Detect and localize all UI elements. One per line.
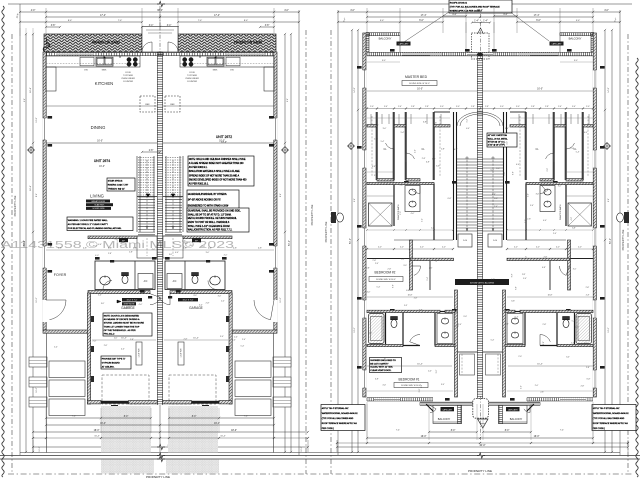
first-floor top dim extension lines (45, 8, 47, 33)
balcony top inner dims (367, 61, 400, 63)
side yard wall boxes left (29, 357, 47, 367)
garage north wall (88, 291, 150, 294)
lower dim rows first floor (46, 417, 101, 419)
svg-text:2'-8": 2'-8" (586, 367, 590, 369)
balcony dark tag bottom-left (441, 407, 455, 411)
powder sink left unit (100, 276, 110, 285)
mid dim row second floor (367, 248, 453, 250)
svg-text:4'-0": 4'-0" (428, 371, 432, 373)
second floor hall wall hatch (411, 258, 454, 260)
svg-text:REF: REF (145, 104, 150, 106)
svg-text:2'-0": 2'-0" (190, 245, 194, 247)
svg-text:WARNING: 1 HOUR FIRE RATED WAL: WARNING: 1 HOUR FIRE RATED WALL (68, 219, 109, 222)
svg-text:6'-8": 6'-8" (436, 165, 440, 167)
floor spec rotated box left (136, 342, 142, 365)
EP panel right unit (192, 238, 201, 242)
svg-text:GREAT ROOM: GREAT ROOM (91, 200, 105, 203)
stair treads second floor left (457, 159, 477, 231)
svg-text:SINK: SINK (102, 70, 107, 72)
svg-text:3'-0": 3'-0" (403, 265, 407, 267)
stair right flight treads dashed upper (165, 158, 182, 196)
garage door bar right unit (192, 401, 220, 404)
svg-text:BE CAT II SAFETY: BE CAT II SAFETY (370, 362, 389, 365)
svg-text:2'-0": 2'-0" (518, 356, 522, 358)
svg-text:7'-4": 7'-4" (560, 430, 564, 432)
partition wall note box (487, 133, 517, 147)
svg-text:THAN 1.5" LOWER THAN THE: THAN 1.5" LOWER THAN THE TOP (104, 325, 140, 328)
level marker diamond right (282, 147, 289, 154)
svg-text:42" HGT. PARTITION: 42" HGT. PARTITION (488, 134, 508, 137)
svg-text:2'-8": 2'-8" (522, 274, 526, 276)
north wall slider gap right (518, 53, 558, 55)
right side dim column inner second floor (604, 30, 606, 110)
second floor south wall left (367, 398, 433, 401)
svg-text:INSULATION MATERIALS SHALL: INSULATION MATERIALS SHALL HAVE A FLAME (189, 170, 240, 173)
svg-text:COOK: COOK (125, 72, 132, 74)
svg-text:2'-0": 2'-0" (400, 211, 402, 215)
svg-text:DW: DW (84, 70, 88, 72)
master bed size tag (402, 81, 437, 86)
leader to left balcony (404, 12, 449, 42)
second floor bath row extra ticks (367, 195, 394, 197)
closet door arcs right unit (566, 140, 574, 149)
svg-text:5'-4": 5'-4" (530, 205, 534, 207)
svg-text:5'-4": 5'-4" (54, 347, 58, 349)
svg-text:1-3/4" FLR: 1-3/4" FLR (139, 348, 141, 358)
right plan side extension lines bottom (366, 402, 368, 444)
kitchen sink left unit (96, 57, 113, 66)
svg-text:8'-0": 8'-0" (382, 60, 386, 62)
svg-text:2'-0": 2'-0" (429, 267, 433, 269)
svg-text:8'-0": 8'-0" (574, 60, 578, 62)
left exterior wall second floor (363, 33, 366, 397)
right exterior wall second floor (593, 33, 596, 397)
closet door arcs left unit (386, 140, 394, 149)
svg-text:6'-8": 6'-8" (423, 122, 427, 124)
svg-text:8'-4": 8'-4" (244, 20, 249, 22)
svg-text:8'-4": 8'-4" (36, 193, 38, 197)
closet rods left unit (371, 116, 373, 176)
pavers terrace right unit (178, 34, 276, 52)
right side dim column second floor (611, 30, 613, 452)
powder door arc right unit (208, 281, 217, 290)
balcony dark tag top-right (550, 42, 564, 46)
svg-text:3'-0": 3'-0" (505, 128, 509, 130)
side door arc right (254, 300, 274, 320)
closet walls right unit (582, 112, 584, 180)
street line full 1 (0, 455, 640, 457)
svg-text:4'-0": 4'-0" (442, 247, 446, 249)
svg-text:3'-0": 3'-0" (536, 194, 540, 196)
balcony top-right floor edge (559, 33, 561, 52)
balcony dark tag bottom-right (506, 407, 520, 411)
svg-text:BALCONY: BALCONY (569, 37, 582, 41)
master bath dim ticks row (367, 229, 453, 231)
foyer dim row (46, 249, 157, 251)
svg-text:5'-4": 5'-4" (377, 287, 381, 289)
svg-text:D-10: D-10 (493, 240, 497, 242)
svg-text:16'-4": 16'-4" (30, 87, 32, 93)
master vanity sinks left unit (405, 186, 420, 212)
balcony dark tag top-left (397, 42, 411, 46)
garage driveway dashed apron left (102, 375, 149, 404)
balcony door leaf bottom-right (524, 405, 530, 412)
driveway centerline break (159, 405, 161, 452)
svg-text:3'-0": 3'-0" (566, 357, 570, 359)
svg-text:1-3/4" FLR: 1-3/4" FLR (181, 348, 183, 358)
svg-text:5'-4": 5'-4" (404, 305, 408, 307)
svg-text:14'-8": 14'-8" (354, 87, 356, 92)
svg-text:3'-0": 3'-0" (169, 254, 173, 256)
svg-text:TREADS: 9@ 11": TREADS: 9@ 11" (108, 188, 125, 191)
svg-text:OF THE THRESHOLD . AS PER: OF THE THRESHOLD . AS PER (104, 329, 136, 332)
svg-text:4'-0": 4'-0" (98, 244, 102, 246)
svg-text:8'-0": 8'-0" (192, 416, 197, 418)
plant at pavers corner (43, 38, 50, 52)
understair wall left (137, 235, 157, 237)
svg-text:(TYP. FOR ALL BALCONIES AN: (TYP. FOR ALL BALCONIES AND (322, 417, 354, 420)
center closet boxes (460, 354, 475, 375)
svg-text:16'-4": 16'-4" (417, 364, 423, 366)
svg-text:5'-4": 5'-4" (515, 316, 519, 318)
second floor closet tick rows (367, 117, 450, 119)
svg-text:16'-4": 16'-4" (30, 185, 32, 191)
svg-text:BALCONY: BALCONY (379, 37, 392, 41)
understair closet right unit (163, 236, 183, 258)
svg-text:4'-0": 4'-0" (514, 247, 518, 249)
powder room left unit (95, 261, 155, 290)
svg-text:METAL ROUND PROFILE. RETUR: METAL ROUND PROFILE. RETURN HANDRAIL (188, 217, 238, 220)
svg-text:4'-0": 4'-0" (284, 10, 289, 12)
svg-text:2'-0": 2'-0" (234, 336, 238, 338)
svg-text:16'-0": 16'-0" (537, 89, 543, 91)
svg-text:4'-0": 4'-0" (501, 144, 505, 146)
svg-text:4'-8": 4'-8" (258, 248, 262, 250)
bottom dashed property line (8, 473, 632, 475)
svg-text:6'-0": 6'-0" (536, 20, 541, 22)
side yard equipment pads left (49, 361, 85, 378)
top boundary line (8, 3, 632, 5)
svg-text:12'-8": 12'-8" (36, 117, 38, 122)
svg-text:5'-4": 5'-4" (491, 340, 495, 342)
svg-text:PROPERTY LINE: PROPERTY LINE (310, 204, 314, 225)
svg-text:34"-38" ABOVE NOSING OR F.: 34"-38" ABOVE NOSING OR F.F. (188, 199, 222, 202)
master WC niche fixture right unit (624, 212, 629, 223)
bath2 door arc right unit (540, 335, 550, 346)
bedroom1 size tag (394, 383, 428, 388)
svg-text:2'-4": 2'-4" (398, 106, 402, 108)
master bed dim left (367, 90, 477, 92)
right property dashed (627, 34, 629, 474)
svg-text:6'-0": 6'-0" (419, 20, 424, 22)
svg-text:4'-0": 4'-0" (95, 255, 99, 257)
svg-text:AT CEILING.: AT CEILING. (102, 366, 115, 369)
svg-text:4'-0": 4'-0" (139, 304, 143, 306)
closet walls left unit (376, 112, 378, 180)
svg-text:COOK: COOK (189, 72, 196, 74)
svg-text:2'-0": 2'-0" (586, 106, 590, 108)
refrigerator left unit (140, 96, 155, 112)
stair left flight treads dashed upper (138, 158, 155, 196)
closet rods right unit (587, 116, 589, 176)
svg-text:3'-4": 3'-4" (384, 106, 388, 108)
bedroom1 dim (367, 365, 452, 367)
svg-text:6'-8": 6'-8" (426, 162, 430, 164)
side yard fence line right (273, 333, 275, 453)
svg-text:3'-0": 3'-0" (218, 296, 222, 298)
svg-text:5'-4": 5'-4" (381, 141, 385, 143)
svg-text:4'-0": 4'-0" (152, 249, 156, 251)
svg-text:4'-0": 4'-0" (575, 327, 579, 329)
stair left flight rails (136, 156, 138, 232)
window W-2 left wall lower (43, 246, 47, 268)
svg-text:PROPERTY LINE: PROPERTY LINE (13, 195, 17, 216)
property line right zigzag (636, 58, 638, 477)
svg-text:16'-4": 16'-4" (214, 423, 220, 425)
garage front wall left segment (87, 401, 101, 404)
centerline entry first floor (159, 6, 161, 56)
svg-text:2'-0": 2'-0" (93, 341, 97, 343)
svg-text:2'-8": 2'-8" (581, 385, 585, 387)
stair dim small (142, 151, 160, 153)
svg-text:9'-4": 9'-4" (287, 98, 289, 102)
svg-text:4'-0": 4'-0" (571, 217, 573, 221)
powder toilet right unit (192, 273, 199, 284)
window and door tag boxes (48, 116, 53, 119)
svg-text:2'-8": 2'-8" (586, 287, 590, 289)
level marker diamond left (28, 147, 35, 154)
svg-text:(TYP. FOR ALL BALCONIES AN: (TYP. FOR ALL BALCONIES AND (593, 417, 625, 420)
window right wall lower (273, 246, 277, 268)
svg-text:APPLY 'SH-P ETERNAL-GIL': APPLY 'SH-P ETERNAL-GIL' (593, 407, 621, 410)
balcony top-right railing (560, 33, 594, 36)
AC closet right unit (167, 274, 182, 289)
svg-text:7'-4": 7'-4" (198, 20, 203, 22)
entry porch outline (142, 27, 178, 53)
svg-text:5'-4": 5'-4" (232, 340, 236, 342)
svg-text:GUARDRAIL/HANDRAIL BY OTHERS: GUARDRAIL/HANDRAIL BY OTHERS. (188, 193, 228, 196)
svg-text:3'-0": 3'-0" (128, 306, 132, 308)
svg-text:50'-0": 50'-0" (24, 240, 26, 246)
svg-text:2'-8": 2'-8" (184, 339, 188, 341)
garage wall pilasters right (226, 316, 229, 322)
svg-text:16'-0": 16'-0" (221, 142, 227, 144)
svg-text:17'-4": 17'-4" (421, 15, 427, 17)
svg-text:A/C: A/C (144, 280, 148, 283)
svg-text:STORM. LANDING MUST BE NO: STORM. LANDING MUST BE NO MORE (104, 322, 145, 325)
bath2 vanity right unit (507, 314, 523, 344)
stair treads second floor right (483, 159, 504, 231)
bedroom2 entry door arc left (411, 266, 421, 275)
return wall left at garage (43, 330, 88, 333)
svg-text:4'-0": 4'-0" (556, 247, 560, 249)
stair landing door right (488, 234, 502, 247)
svg-text:SHALL HAVE 1-1/2" CLEARANCE: SHALL HAVE 1-1/2" CLEARANCE FROM (188, 225, 230, 228)
balcony bottom-right inner rail (499, 405, 503, 424)
svg-text:40'-0": 40'-0" (479, 444, 485, 447)
left side dim column inner (32, 34, 34, 143)
svg-text:5'-4": 5'-4" (401, 132, 405, 134)
attic access dark label (455, 279, 509, 285)
svg-text:3'-0": 3'-0" (463, 316, 467, 318)
svg-text:CLEAR VENT DOOR.: CLEAR VENT DOOR. (370, 369, 391, 372)
svg-text:4'-8": 4'-8" (108, 248, 112, 250)
garage side wall right (229, 293, 232, 404)
svg-text:FRC-311.2: FRC-311.2 (104, 334, 115, 336)
side door opening right wall (273, 300, 277, 322)
svg-text:8'-4": 8'-4" (68, 20, 73, 22)
svg-text:2'-8": 2'-8" (531, 106, 535, 108)
garage interior dim 16-4 left (92, 339, 156, 341)
svg-text:6'-8": 6'-8" (587, 379, 591, 381)
svg-text:ROOF9-CHOS.01: ROOF9-CHOS.01 (450, 3, 468, 5)
svg-text:DW: DW (230, 70, 234, 72)
svg-text:4'-8": 4'-8" (133, 248, 137, 250)
north wall shaft gap (467, 53, 493, 55)
kitchen floor boundary left unit (46, 105, 157, 107)
bath2 tub right unit (576, 314, 592, 344)
svg-text:SINK: SINK (213, 70, 218, 72)
dishwasher DW left unit (80, 57, 94, 66)
balcony top-left railing (366, 33, 400, 36)
kitchen counter side return right unit (264, 67, 274, 91)
cook top burners left unit (127, 58, 131, 62)
fire wall warning note box (67, 217, 133, 231)
svg-text:4'-0": 4'-0" (385, 357, 387, 361)
stair right flight treads solid lower (165, 197, 182, 235)
svg-text:4'-4": 4'-4" (452, 14, 457, 16)
svg-text:2'-8": 2'-8" (108, 253, 112, 255)
first-floor top dim row 2 (46, 16, 160, 18)
svg-text:5'-4": 5'-4" (505, 323, 509, 325)
garage door to foyer right (160, 294, 170, 305)
svg-text:2'-8": 2'-8" (425, 106, 429, 108)
svg-text:10'-0": 10'-0" (36, 297, 38, 302)
svg-text:16'-0": 16'-0" (534, 436, 540, 438)
svg-text:4'-0": 4'-0" (536, 247, 540, 249)
bedroom2 interior dim (367, 296, 453, 298)
master bed dim right (483, 90, 593, 92)
svg-text:2'-8": 2'-8" (129, 251, 133, 253)
svg-text:7'-4": 7'-4" (72, 416, 76, 418)
svg-text:6'-8": 6'-8" (372, 166, 376, 168)
svg-text:CAPILLARY: CAPILLARY (508, 408, 519, 411)
garage door bar left unit (101, 401, 129, 404)
kitchen north wall window gap right (226, 53, 264, 55)
second-floor top dim extensions (366, 8, 368, 33)
bath2 walls right unit (505, 311, 593, 313)
svg-text:3'-0": 3'-0" (383, 128, 387, 130)
svg-text:SOUND SIZE: W 10'-0": SOUND SIZE: W 10'-0" (401, 385, 421, 387)
svg-text:5'-4": 5'-4" (93, 246, 97, 248)
gap property dashed right-plan (330, 30, 332, 474)
svg-text:2'-8": 2'-8" (206, 302, 210, 304)
svg-text:3'-0": 3'-0" (220, 336, 224, 338)
svg-text:APPLY 'SH-P ETERNAL-GIL': APPLY 'SH-P ETERNAL-GIL' (322, 407, 350, 410)
svg-text:CAPILLARY: CAPILLARY (442, 408, 453, 411)
second floor north wall (367, 52, 593, 55)
svg-text:17'-4": 17'-4" (100, 15, 106, 17)
left boundary solid (19, 4, 21, 455)
stair mid landing beam (137, 196, 157, 198)
floor spec rotated box right (178, 342, 184, 365)
svg-text:36'-4": 36'-4" (477, 10, 483, 12)
svg-text:18'-0": 18'-0" (94, 430, 100, 432)
balcony bottom-right (499, 405, 527, 423)
svg-text:3'-0": 3'-0" (193, 295, 197, 297)
svg-text:SMOKE DEVELOPED INDEX OF N: SMOKE DEVELOPED INDEX OF NOT MORE THAN 4… (189, 178, 247, 181)
svg-text:DINING: DINING (91, 125, 106, 130)
master bath walls left unit (367, 183, 434, 185)
svg-text:5'-4": 5'-4" (380, 20, 385, 22)
balcony door leaf bottom-left (430, 405, 436, 412)
garage escape door note box (103, 313, 152, 336)
svg-text:MASTER BED: MASTER BED (405, 75, 428, 79)
svg-text:5'-4": 5'-4" (576, 20, 581, 22)
svg-text:PROPERTY LINE: PROPERTY LINE (468, 469, 492, 473)
hall walls below stairs (410, 240, 413, 290)
gypsum board note box (101, 356, 131, 369)
svg-text:OVEN UNDER: OVEN UNDER (121, 78, 135, 80)
svg-text:3'-0": 3'-0" (516, 106, 520, 108)
master WC niche fixture left unit (331, 212, 336, 223)
powder door arc left unit (103, 281, 112, 290)
master bath door arc left unit (414, 184, 420, 194)
svg-text:PER CODE.): PER CODE.) (593, 428, 605, 430)
south wall window gap right (560, 398, 586, 400)
svg-text:SHALL BE 34" TO 36" AT F: SHALL BE 34" TO 36" AT F.F.'D. 1.5" DIAM… (188, 213, 232, 216)
svg-text:2'-4": 2'-4" (558, 106, 562, 108)
svg-text:4'-0": 4'-0" (411, 213, 415, 215)
svg-text:2'-8": 2'-8" (411, 106, 415, 108)
svg-text:6'-8": 6'-8" (511, 273, 513, 277)
svg-text:12'-0": 12'-0" (608, 327, 610, 332)
svg-text:UNIT 2674: UNIT 2674 (94, 159, 110, 163)
svg-text:SHOWER ENCLOSED TO: SHOWER ENCLOSED TO (370, 360, 396, 362)
window gaps left wall second floor (362, 70, 366, 88)
svg-text:2'-0": 2'-0" (115, 239, 119, 241)
svg-text:AS PER R302.10.1.: AS PER R302.10.1. (189, 183, 209, 186)
svg-text:4'-0": 4'-0" (454, 149, 458, 151)
svg-text:16'-0": 16'-0" (36, 387, 38, 392)
svg-text:4'-0": 4'-0" (382, 385, 386, 387)
first floor interior door tags (148, 296, 152, 299)
center shaft centerline bottom (480, 396, 482, 440)
garage door to foyer left (150, 294, 160, 305)
svg-text:PAVERS ON SAND: PAVERS ON SAND (234, 41, 263, 45)
gap boundary solid right-plan (337, 10, 339, 455)
second-floor top dim row 2 (367, 16, 480, 18)
misc leader dots first floor (120, 57, 121, 58)
svg-text:2'-8": 2'-8" (373, 260, 377, 262)
svg-text:2'-8": 2'-8" (149, 150, 154, 152)
guardrail handrail note box B (187, 208, 249, 232)
svg-text:OVEN UNDER: OVEN UNDER (185, 78, 199, 80)
svg-text:GYPSUM BOARD: GYPSUM BOARD (102, 362, 120, 365)
balcony bottom-left inner rail (458, 405, 462, 424)
svg-text:4'-8": 4'-8" (183, 248, 187, 250)
svg-text:6'-8": 6'-8" (375, 379, 379, 381)
left side dim column first floor (25, 34, 27, 452)
svg-text:50'-0": 50'-0" (289, 240, 291, 246)
svg-text:2'-0": 2'-0" (547, 168, 549, 172)
svg-text:A/C: A/C (173, 280, 177, 283)
svg-text:16'-0": 16'-0" (97, 141, 103, 143)
svg-text:2'-0": 2'-0" (455, 326, 459, 328)
svg-text:2'-8": 2'-8" (545, 106, 549, 108)
walls and ceilings finish note box (188, 156, 254, 186)
svg-text:3'-0": 3'-0" (521, 385, 523, 389)
